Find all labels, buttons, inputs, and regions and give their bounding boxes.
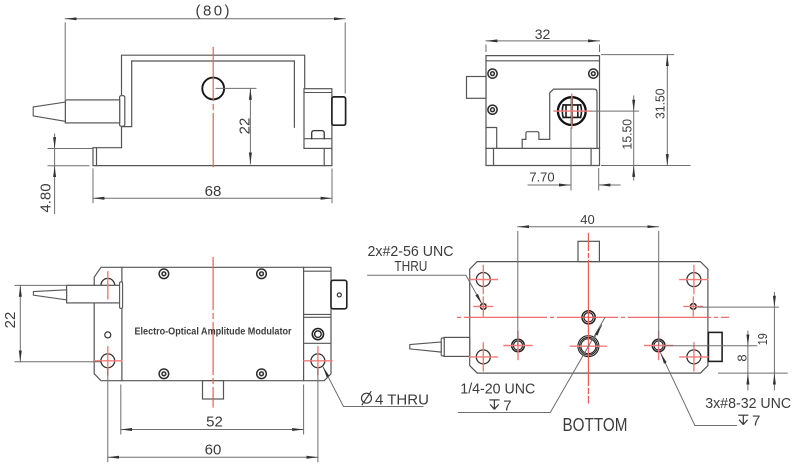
- svg-text:THRU: THRU: [394, 258, 427, 275]
- svg-text:4.80: 4.80: [37, 183, 54, 212]
- screw top-left: [159, 269, 169, 279]
- bottom tab: [203, 381, 224, 399]
- svg-text:52: 52: [206, 413, 223, 430]
- crosshair small right: [684, 297, 703, 316]
- diameter symbol: [362, 392, 372, 405]
- svg-text:7: 7: [752, 413, 760, 430]
- front aperture: [558, 97, 586, 125]
- dimension 60: [108, 369, 318, 462]
- dimension 19: [698, 293, 787, 391]
- aperture crosshair: [554, 94, 590, 128]
- fiber tube (bottom view): [444, 337, 470, 356]
- fiber cone (top view): [33, 290, 66, 300]
- svg-text:19: 19: [755, 333, 770, 345]
- svg-text:40: 40: [580, 212, 594, 227]
- fiber collar: [120, 282, 123, 309]
- centerline vertical: [212, 258, 214, 408]
- svg-text:22: 22: [237, 118, 254, 135]
- hole mid-left #8-32: [512, 339, 525, 352]
- svg-text:4 THRU: 4 THRU: [375, 392, 429, 409]
- crosshair TL hole: [107, 272, 109, 299]
- svg-text:Electro-Optical Amplitude Modu: Electro-Optical Amplitude Modulator: [135, 325, 292, 337]
- mounting hole top-left: [101, 278, 115, 292]
- fiber cone (bottom view): [410, 342, 441, 352]
- leader 3x#8-32: [661, 353, 737, 426]
- mounting hole TR: [687, 273, 701, 287]
- svg-text:BOTTOM: BOTTOM: [563, 415, 628, 435]
- hole mid-right #8-32: [652, 339, 665, 352]
- mounting hole bottom-right: [311, 354, 325, 368]
- screw mid-left: [488, 105, 497, 114]
- aperture circle: [202, 78, 224, 100]
- svg-text:32: 32: [535, 26, 551, 42]
- plug hole: [337, 293, 341, 297]
- fiber cone: [33, 102, 65, 121]
- dimension 15.50: [590, 96, 639, 180]
- dimension 22 (top view): [15, 285, 100, 361]
- side view left wall: [122, 61, 132, 127]
- fiber flange: [120, 96, 125, 127]
- crosshair BR: [680, 343, 708, 371]
- inner body right edge: [303, 267, 305, 380]
- fiber tube: [65, 100, 119, 123]
- small hole right #2-56: [690, 304, 696, 310]
- screw top-right: [589, 69, 598, 78]
- crosshair mid-right: [645, 332, 673, 360]
- screw bottom-left: [159, 369, 169, 379]
- centerline: [212, 48, 214, 171]
- outer plate: [94, 267, 331, 380]
- svg-text:3x#8-32 UNC: 3x#8-32 UNC: [705, 395, 791, 412]
- centerline vertical: [587, 234, 589, 404]
- mounting hole TL: [476, 273, 490, 287]
- top tab (bottom view): [578, 241, 599, 261]
- connector notch: [312, 131, 325, 139]
- connector strip lines: [304, 271, 331, 343]
- svg-text:68: 68: [205, 183, 222, 200]
- center hole 1/4-20: [578, 336, 599, 357]
- aperture crystal barrel: [562, 105, 581, 118]
- svg-text:31.50: 31.50: [653, 88, 668, 119]
- crosshair TL: [469, 266, 497, 294]
- dimension 7.70: [528, 128, 620, 190]
- right connector (bottom view): [708, 332, 722, 361]
- dimension 22 (side): [216, 88, 256, 163]
- front base: [486, 148, 600, 165]
- svg-text:7.70: 7.70: [529, 170, 554, 185]
- crosshair small left: [474, 297, 493, 316]
- front left tab: [467, 77, 487, 99]
- crosshair BR hole: [304, 347, 332, 375]
- centerline horizontal: [458, 316, 729, 318]
- svg-text:15.50: 15.50: [619, 119, 634, 150]
- dimension 52: [121, 385, 304, 434]
- SMA connector: [312, 329, 323, 340]
- front inner panel: [522, 89, 597, 148]
- screw top-right: [257, 269, 267, 279]
- svg-text:60: 60: [205, 442, 222, 459]
- crosshair TR: [680, 266, 708, 294]
- crosshair BL hole: [94, 347, 122, 375]
- screw top-left: [488, 69, 497, 78]
- leader 2x#2-56: [368, 275, 483, 304]
- crosshair BL: [469, 343, 497, 371]
- upper center hole: [582, 311, 595, 324]
- bottom plate: [470, 262, 708, 374]
- fiber block (top view): [67, 285, 121, 303]
- side view top plate: [122, 55, 305, 148]
- dimension 8: [666, 331, 757, 390]
- front body: [486, 56, 600, 149]
- dimension 68: [93, 169, 332, 203]
- dimension 40: [518, 227, 659, 345]
- leader 1/4-20: [458, 318, 605, 413]
- crosshair center hole: [570, 345, 606, 347]
- inner body left edge: [121, 267, 123, 380]
- side view base plate: [93, 148, 332, 166]
- crosshair mid-left: [504, 332, 532, 360]
- svg-text:7: 7: [503, 397, 511, 414]
- mounting hole bottom-left: [101, 354, 115, 368]
- connector plug (top view): [331, 280, 347, 309]
- side view right wall: [293, 61, 295, 127]
- svg-text:1/4-20 UNC: 1/4-20 UNC: [460, 380, 535, 397]
- front left-bottom step: [486, 128, 497, 149]
- dimension (80): [65, 19, 345, 99]
- dimension 4.80: [48, 134, 93, 214]
- aperture vertical bars: [571, 98, 573, 125]
- dimension 31.50: [602, 55, 691, 166]
- dimension 32: [486, 41, 600, 52]
- fiber collar (bottom view): [441, 338, 444, 356]
- mounting hole BL: [476, 350, 490, 364]
- small hole left: [105, 332, 111, 338]
- small hole left #2-56: [480, 304, 486, 310]
- screw bottom-right: [257, 369, 267, 379]
- connector plug: [332, 97, 346, 125]
- svg-text:8: 8: [735, 354, 750, 361]
- connector block: [304, 89, 332, 149]
- leader dia 4 thru: [323, 367, 423, 407]
- mounting hole BR: [687, 350, 701, 364]
- svg-text:22: 22: [2, 312, 19, 329]
